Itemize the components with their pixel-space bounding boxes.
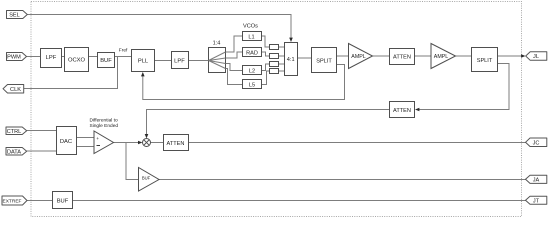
svg-text:L2: L2: [249, 69, 255, 75]
wire SPLIT1 to AMPL1: [337, 55, 349, 57]
wire RAD to filter 2: [262, 52, 269, 56]
svg-text:Single Ended: Single Ended: [90, 123, 119, 129]
wire ATTEN3 to JC: [188, 142, 526, 144]
wire 1:4 out4 to L5: [226, 69, 243, 85]
port EXTREF: [2, 196, 27, 205]
svg-text:ATTEN: ATTEN: [167, 141, 185, 147]
svg-text:AMPL: AMPL: [351, 54, 365, 60]
wire AMPL2 to SPLIT2: [456, 55, 472, 57]
svg-text:DATA: DATA: [7, 149, 21, 155]
dashed boundary: [31, 2, 522, 217]
arrow into JL: [521, 54, 525, 58]
combiner 4:1: [285, 43, 298, 76]
wire L5 to filter 4: [262, 71, 269, 85]
wire SPLIT2 feedback to ATTEN4: [419, 64, 509, 110]
svg-text:1:4: 1:4: [213, 41, 221, 47]
svg-text:SPLIT: SPLIT: [477, 58, 493, 64]
wire DATA to DAC: [27, 150, 56, 152]
svg-text:PWM: PWM: [7, 55, 21, 61]
wire branch to CLK: [24, 57, 118, 89]
svg-text:RAD: RAD: [246, 51, 258, 57]
wire AMPL1 to ATTEN1: [373, 55, 390, 57]
buffer BUF: [98, 53, 115, 68]
svg-text:OCXO: OCXO: [68, 58, 86, 64]
attenuator ATTEN3: [164, 135, 189, 151]
svg-text:JL: JL: [533, 54, 539, 60]
wire filter 4 to 4:1: [278, 70, 284, 72]
port CTRL: [6, 127, 27, 135]
wire SEL to 4:1: [27, 15, 291, 39]
svg-text:DAC: DAC: [60, 139, 72, 145]
svg-text:JC: JC: [533, 141, 540, 147]
wire LPF2 to 1:4: [188, 60, 208, 62]
svg-text:BUF: BUF: [142, 175, 151, 180]
wire 1:4 out1 to L1: [226, 36, 243, 52]
attenuator ATTEN1: [390, 49, 415, 65]
svg-text:BUF: BUF: [100, 58, 112, 64]
wire ATTEN4 to mixer: [147, 110, 390, 135]
svg-text:AMPL: AMPL: [434, 54, 448, 60]
wire branch to BUF triangle: [126, 143, 139, 180]
port CLK: [3, 85, 24, 94]
svg-text:4:1: 4:1: [287, 57, 295, 63]
vco L1: [243, 32, 262, 41]
wire ATTEN1 to AMPL2: [415, 55, 431, 57]
port JT: [526, 196, 547, 204]
svg-text:EXTREF: EXTREF: [3, 199, 22, 205]
amplifier AMPL2: [431, 44, 456, 69]
wire diff amp to mixer: [114, 142, 139, 144]
arrow into mixer left: [138, 141, 142, 145]
wire CTRL to DAC: [27, 130, 56, 132]
wire BUF triangle to JA: [159, 179, 526, 181]
splitter SPLIT1: [312, 48, 337, 73]
wire 1:4 out3 to L2: [226, 64, 243, 71]
filter block 4: [270, 69, 279, 74]
svg-text:ATTEN: ATTEN: [393, 55, 411, 61]
lowpass filter LPF: [41, 49, 62, 68]
wire filter 3 to 4:1: [278, 63, 284, 65]
wire L2 to filter 3: [262, 64, 269, 71]
svg-text:BUF: BUF: [57, 199, 69, 205]
svg-text:SPLIT: SPLIT: [316, 59, 332, 65]
filter block 2: [270, 54, 279, 59]
wire BUF2 to JT: [73, 200, 526, 202]
dac DAC: [57, 127, 77, 155]
arrow into 4:1 top: [289, 38, 293, 42]
wire BUF to PLL: [115, 56, 132, 58]
svg-text:LPF: LPF: [46, 55, 57, 61]
svg-text:JA: JA: [533, 178, 540, 184]
wire L1 to filter 1: [262, 36, 270, 47]
amplifier AMPL1: [349, 44, 373, 69]
wire EXTREF to BUF2: [27, 200, 52, 202]
vco RAD: [243, 48, 262, 57]
wire OCXO to BUF: [89, 56, 98, 58]
wire DAC out plus: [77, 137, 95, 139]
mixer: [143, 139, 151, 147]
svg-text:Fref: Fref: [119, 48, 128, 54]
svg-text:Differential to: Differential to: [90, 118, 119, 124]
svg-text:L5: L5: [249, 83, 255, 89]
wire PLL to LPF2: [155, 60, 171, 62]
wire 4:1 to SPLIT1: [298, 57, 312, 59]
splitter 1:4: [209, 41, 226, 73]
arrow into ATTEN4 right: [415, 108, 419, 112]
svg-text:SEL: SEL: [9, 13, 20, 19]
wire mixer to ATTEN3: [151, 142, 164, 144]
svg-text:L1: L1: [248, 35, 254, 41]
vco L2: [243, 66, 262, 75]
arrow into mixer top: [145, 134, 149, 138]
port PWM: [7, 53, 27, 61]
arrow into PLL bottom: [141, 72, 145, 76]
splitter SPLIT2: [472, 48, 498, 72]
svg-text:+: +: [96, 137, 99, 142]
svg-text:ATTEN: ATTEN: [393, 108, 411, 114]
svg-text:LPF: LPF: [174, 59, 185, 65]
oscillator OCXO: [65, 48, 89, 72]
svg-text:JT: JT: [533, 199, 540, 205]
wire 1:4 out2 to RAD: [226, 52, 243, 58]
filter block 1: [270, 45, 279, 50]
port JC: [526, 138, 547, 147]
wire filter 2 to 4:1: [278, 55, 284, 57]
wire SPLIT2 to JL: [498, 55, 522, 57]
buffer triangle BUF3: [139, 168, 160, 192]
svg-text:CLK: CLK: [10, 87, 21, 93]
port SEL: [7, 11, 28, 19]
diff amp U1: [94, 131, 114, 154]
svg-text:PLL: PLL: [138, 59, 149, 65]
pll PLL: [132, 50, 155, 72]
lowpass filter LPF2: [172, 52, 189, 69]
wire filter 1 to 4:1: [278, 46, 284, 48]
attenuator ATTEN4 feedback: [390, 102, 415, 118]
filter block 3: [270, 62, 279, 67]
wire SPLIT1 feedback to PLL: [143, 65, 345, 100]
wire PWM to LPF: [27, 56, 41, 58]
port JA: [526, 175, 547, 183]
svg-text:VCOs: VCOs: [243, 24, 258, 30]
port DATA: [6, 148, 27, 156]
wire LPF to OCXO: [62, 56, 64, 58]
svg-text:CTRL: CTRL: [7, 129, 22, 135]
vco L5: [243, 80, 262, 89]
port JL: [526, 52, 547, 61]
wire DAC out minus: [77, 146, 95, 148]
buffer BUF2: [53, 192, 73, 209]
